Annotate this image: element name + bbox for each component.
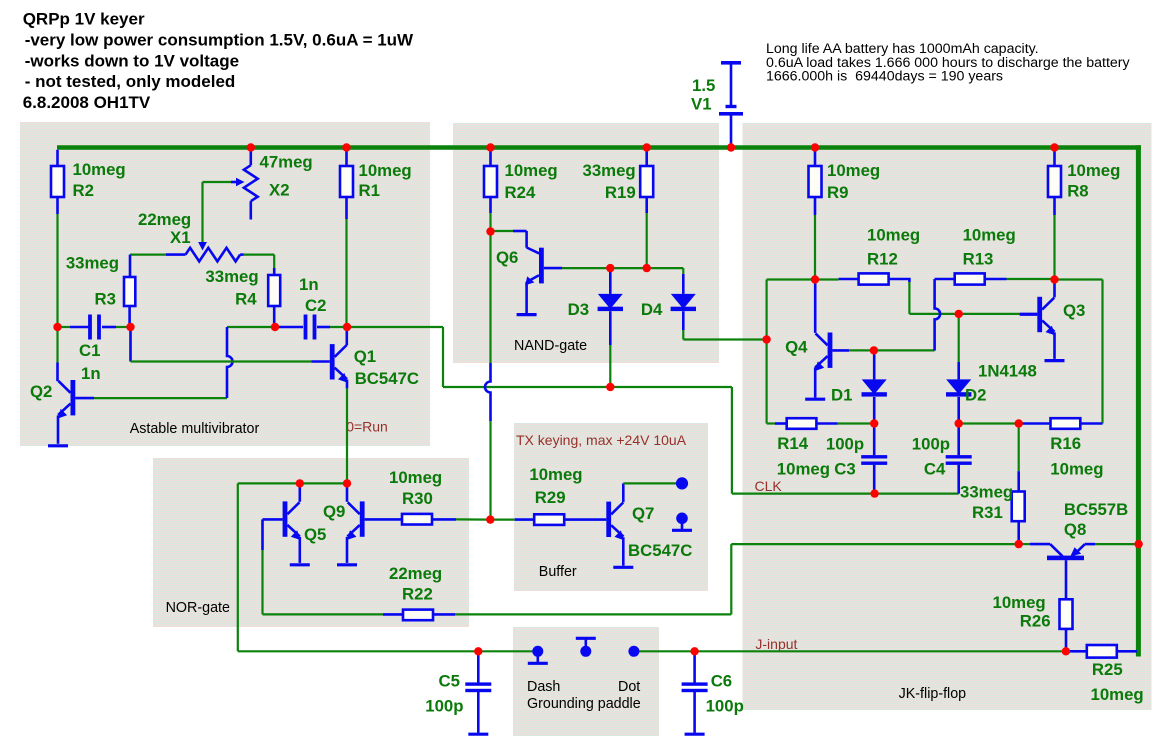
svg-text:10meg: 10meg [993, 593, 1046, 612]
svg-text:33meg: 33meg [205, 267, 258, 286]
svg-text:Astable multivibrator: Astable multivibrator [130, 421, 260, 437]
svg-text:NOR-gate: NOR-gate [166, 600, 230, 616]
svg-text:D2: D2 [965, 386, 986, 405]
svg-text:10meg: 10meg [389, 468, 442, 487]
svg-text:- not tested, only modeled: - not tested, only modeled [25, 72, 236, 91]
svg-text:33meg: 33meg [66, 254, 119, 273]
svg-text:X1: X1 [170, 228, 191, 247]
svg-text:R26: R26 [1020, 612, 1051, 631]
svg-text:R29: R29 [535, 488, 566, 507]
svg-text:-very low power consumption 1.: -very low power consumption 1.5V, 0.6uA … [25, 30, 414, 49]
svg-text:R14: R14 [777, 434, 808, 453]
svg-text:X2: X2 [269, 181, 290, 200]
svg-text:BC557B: BC557B [1064, 500, 1128, 519]
svg-text:Q8: Q8 [1064, 520, 1086, 539]
svg-text:R19: R19 [605, 183, 636, 202]
svg-text:Dot: Dot [618, 679, 640, 695]
svg-text:R31: R31 [972, 503, 1003, 522]
svg-text:C2: C2 [305, 296, 326, 315]
svg-text:NAND-gate: NAND-gate [514, 338, 587, 354]
svg-text:Q1: Q1 [354, 347, 376, 366]
svg-text:R24: R24 [505, 183, 536, 202]
svg-text:10meg: 10meg [777, 460, 830, 479]
svg-text:Buffer: Buffer [539, 564, 577, 580]
svg-text:22meg: 22meg [138, 210, 191, 229]
svg-text:10meg: 10meg [1050, 460, 1103, 479]
svg-text:C3: C3 [834, 460, 855, 479]
svg-text:0=Run: 0=Run [346, 419, 388, 435]
svg-text:10meg: 10meg [505, 161, 558, 180]
svg-text:10meg: 10meg [1067, 161, 1120, 180]
svg-text:R13: R13 [963, 250, 994, 269]
svg-text:47meg: 47meg [260, 153, 313, 172]
svg-text:R2: R2 [73, 181, 94, 200]
svg-text:TX keying, max +24V 10uA: TX keying, max +24V 10uA [516, 432, 687, 448]
svg-text:J-input: J-input [755, 636, 797, 652]
svg-text:33meg: 33meg [960, 483, 1013, 502]
svg-text:V1: V1 [691, 95, 712, 114]
svg-text:R16: R16 [1050, 434, 1081, 453]
svg-text:10meg: 10meg [963, 225, 1016, 244]
svg-text:JK-flip-flop: JK-flip-flop [899, 686, 967, 702]
svg-text:Q2: Q2 [30, 382, 52, 401]
svg-text:BC547C: BC547C [628, 541, 692, 560]
svg-text:Q6: Q6 [496, 248, 518, 267]
svg-text:Q5: Q5 [304, 525, 326, 544]
svg-text:-works down to 1V voltage: -works down to 1V voltage [25, 51, 239, 70]
svg-text:22meg: 22meg [389, 564, 442, 583]
svg-text:Q9: Q9 [323, 502, 345, 521]
svg-text:R8: R8 [1067, 182, 1088, 201]
svg-text:1.5: 1.5 [692, 76, 715, 95]
svg-text:R3: R3 [95, 290, 116, 309]
svg-text:Q7: Q7 [632, 504, 654, 523]
svg-text:C1: C1 [79, 341, 100, 360]
svg-text:1n: 1n [81, 364, 101, 383]
svg-text:10meg: 10meg [359, 161, 412, 180]
svg-text:1n: 1n [299, 275, 319, 294]
svg-text:Q4: Q4 [785, 338, 808, 357]
svg-text:R9: R9 [827, 183, 848, 202]
svg-text:100p: 100p [826, 435, 864, 454]
svg-text:10meg: 10meg [1091, 685, 1144, 704]
svg-text:100p: 100p [912, 435, 950, 454]
svg-text:6.8.2008 OH1TV: 6.8.2008 OH1TV [23, 93, 151, 112]
svg-text:Dash: Dash [527, 679, 560, 695]
svg-text:BC547C: BC547C [355, 369, 419, 388]
svg-text:100p: 100p [706, 697, 744, 716]
svg-text:R4: R4 [235, 290, 257, 309]
svg-text:Grounding paddle: Grounding paddle [527, 696, 641, 712]
svg-text:C6: C6 [711, 672, 732, 691]
svg-text:10meg: 10meg [827, 161, 880, 180]
svg-text:10meg: 10meg [867, 225, 920, 244]
svg-text:D3: D3 [568, 300, 589, 319]
svg-text:1666.000h is 69440days = 190: 1666.000h is 69440days = 190 years [766, 69, 1003, 85]
svg-text:R25: R25 [1092, 660, 1123, 679]
svg-text:D1: D1 [831, 386, 852, 405]
svg-text:10meg: 10meg [73, 160, 126, 179]
svg-text:Q3: Q3 [1063, 301, 1085, 320]
svg-text:1N4148: 1N4148 [978, 362, 1037, 381]
svg-text:QRPp 1V keyer: QRPp 1V keyer [23, 10, 145, 29]
svg-text:CLK: CLK [755, 478, 783, 494]
svg-text:C5: C5 [439, 672, 460, 691]
svg-text:D4: D4 [641, 300, 663, 319]
svg-text:100p: 100p [425, 697, 463, 716]
svg-text:R12: R12 [867, 250, 898, 269]
svg-text:C4: C4 [924, 460, 946, 479]
svg-text:33meg: 33meg [583, 161, 636, 180]
svg-text:R1: R1 [359, 181, 380, 200]
svg-text:R30: R30 [402, 489, 433, 508]
svg-text:10meg: 10meg [529, 465, 582, 484]
svg-text:R22: R22 [402, 585, 433, 604]
